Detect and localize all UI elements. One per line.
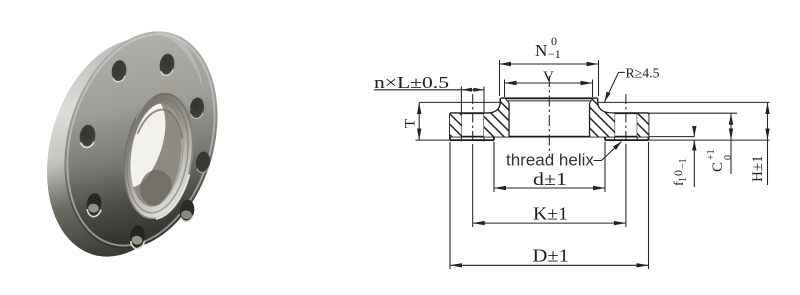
face outer chamfer highlight ring xyxy=(44,17,238,263)
plate bottom outer segments xyxy=(450,139,649,141)
bore centerline xyxy=(548,76,550,157)
bolt hole 2 (upper-right) xyxy=(189,97,206,120)
svg-text:K±1: K±1 xyxy=(533,204,568,224)
right bolt centerline xyxy=(625,94,627,146)
V extension right xyxy=(592,80,594,98)
centerlines xyxy=(473,76,626,227)
K arrows xyxy=(473,221,485,225)
right bolt hole wall right xyxy=(636,113,638,140)
T arrows xyxy=(417,102,421,114)
left bolt centerline extension to K xyxy=(472,146,474,227)
svg-text:+1: +1 xyxy=(706,149,717,160)
nxL arrows xyxy=(461,88,472,92)
svg-text:−1: −1 xyxy=(548,47,561,61)
bore lower dark zone xyxy=(138,168,175,208)
svg-text:N: N xyxy=(535,41,547,60)
svg-text:0: 0 xyxy=(723,155,734,160)
bolt hole 6 (lower-left) xyxy=(85,192,103,217)
hub right wall xyxy=(597,98,599,101)
bore chamfer right xyxy=(590,98,594,103)
svg-text:V: V xyxy=(543,69,554,85)
hatching left inner + hub wall xyxy=(484,99,508,137)
bore right wall xyxy=(589,103,591,137)
D dimension line xyxy=(450,264,649,266)
d dimension line xyxy=(494,187,605,189)
hub fillet left xyxy=(489,102,501,114)
flange front face disc xyxy=(40,13,242,267)
plate left edge xyxy=(449,113,451,140)
left bolt hole wall right xyxy=(483,87,485,142)
bolt hole 5 (bottom) xyxy=(128,224,146,249)
d extension left xyxy=(493,142,495,193)
d arrows xyxy=(494,186,506,190)
bore lit left wall xyxy=(108,93,175,193)
R leader arrow xyxy=(605,92,611,103)
H dimension line xyxy=(767,102,769,185)
svg-text:0: 0 xyxy=(671,170,685,176)
bottom extension 136.6 right (f1) xyxy=(649,136,695,138)
hatching right inner + hub wall xyxy=(590,99,614,137)
hub fillet right xyxy=(598,102,611,114)
svg-text:1: 1 xyxy=(678,177,689,182)
plate right edge xyxy=(648,113,650,140)
plate top surface xyxy=(450,112,649,114)
svg-text:H±1: H±1 xyxy=(750,155,766,182)
hub boss ring xyxy=(116,88,201,223)
K dimension line xyxy=(473,222,626,224)
label C +1/0 (rotated) xyxy=(706,149,734,172)
T dimension line xyxy=(418,102,420,140)
bolt hole 3 (right) xyxy=(195,151,212,174)
svg-text:n×L±0.5: n×L±0.5 xyxy=(374,73,449,92)
svg-text:R≥4.5: R≥4.5 xyxy=(626,66,660,81)
right bolt hole wall left xyxy=(614,113,616,140)
left bolt hole wall left xyxy=(460,87,462,142)
C top extension xyxy=(649,112,738,114)
H arrows xyxy=(765,102,769,114)
left bolt centerline xyxy=(472,94,474,146)
spot face line right xyxy=(610,112,649,114)
bottom extension left (T) xyxy=(416,139,451,141)
thread helix arrow xyxy=(613,142,622,151)
bore right thread shading xyxy=(162,156,183,206)
f1 dimension line lower xyxy=(693,140,695,187)
N arrows xyxy=(499,62,511,66)
dimension lines xyxy=(374,60,768,269)
right bolt centerline extension to K xyxy=(625,146,627,227)
hub chamfer line xyxy=(505,100,594,102)
C arrows xyxy=(729,113,733,125)
svg-text:T: T xyxy=(403,119,419,128)
V extension left xyxy=(504,80,506,98)
bolt hole 8 (upper-left) xyxy=(110,59,127,82)
bore chamfer left xyxy=(505,98,509,103)
bolt hole 4 (lower-right) xyxy=(178,199,195,222)
svg-text:−1: −1 xyxy=(678,158,689,169)
C dimension line xyxy=(730,113,732,174)
flange outer rim (cylindrical side band) xyxy=(23,20,226,275)
svg-text:C: C xyxy=(710,162,726,172)
hub inner chamfer line xyxy=(120,95,195,217)
V arrows xyxy=(505,81,517,85)
svg-text:0: 0 xyxy=(551,34,557,48)
bottom extension right (f1 C H) xyxy=(649,139,770,141)
f1 dimension line upper xyxy=(693,126,695,137)
arrowheads xyxy=(417,62,770,268)
D extension right xyxy=(648,142,650,269)
svg-text:d±1: d±1 xyxy=(533,169,567,189)
N extension left xyxy=(499,60,501,96)
bottom step left xyxy=(493,137,495,141)
top extension line left (T) xyxy=(419,101,500,103)
nxL leader line xyxy=(374,89,484,91)
V dimension line xyxy=(505,82,593,84)
label f1 0/-1 (rotated) xyxy=(671,158,689,186)
bolt hole 1 (top) xyxy=(158,53,175,76)
f1 arrows xyxy=(692,126,696,137)
thread arc lines xyxy=(154,107,190,204)
N dimension line xyxy=(499,63,599,65)
d extension right xyxy=(604,142,606,193)
R leader xyxy=(605,72,626,102)
N extension right xyxy=(598,60,600,96)
svg-text:thread helix: thread helix xyxy=(506,151,594,170)
bolt hole 7 (left) xyxy=(78,124,97,149)
D extension left xyxy=(449,142,451,269)
hub bright bottom-right edge xyxy=(156,171,189,223)
thread helix thin line right xyxy=(592,102,594,137)
top extension line right (H) xyxy=(598,101,770,103)
hub top face xyxy=(501,97,598,99)
thread helix leader xyxy=(594,142,622,161)
hatching left outer xyxy=(450,114,461,137)
bore left wall xyxy=(508,103,510,137)
bore top inner edge xyxy=(137,107,185,141)
hub ring machining sheen top xyxy=(135,77,195,131)
bottom step right xyxy=(604,137,606,141)
svg-text:D±1: D±1 xyxy=(533,246,570,266)
thread helix thin line left xyxy=(504,102,506,137)
plate bottom (recessed centre) xyxy=(450,136,649,138)
D arrows xyxy=(450,263,462,267)
spot face line left xyxy=(450,112,501,114)
hub top-left dark edge xyxy=(117,89,200,222)
hatching right outer xyxy=(637,114,648,137)
hub left wall xyxy=(500,98,502,101)
